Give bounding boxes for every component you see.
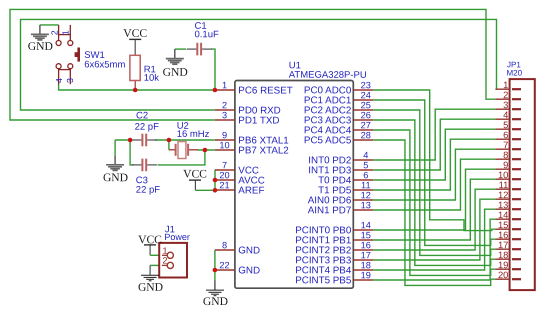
ground GND at SW1 — [28, 25, 53, 53]
svg-text:12: 12 — [361, 190, 371, 200]
pin 10 PB7 XTAL2 — [215, 140, 289, 156]
pin 2 PD0 RXD — [215, 100, 281, 116]
svg-text:11: 11 — [361, 180, 371, 190]
svg-text:3: 3 — [222, 110, 227, 120]
svg-text:GND: GND — [103, 171, 128, 184]
wire U1 pin 8 and pin 22 to GND — [214, 250, 216, 281]
pin 2 JP1 — [495, 89, 521, 100]
svg-text:6x6x5mm: 6x6x5mm — [84, 59, 125, 70]
wire net PB1: U1 to JP1 pin 10 — [373, 179, 495, 240]
svg-text:6: 6 — [363, 170, 368, 180]
wire net PD5: U1 to JP1 pin 6 — [373, 139, 495, 190]
node node RESET/C1 at U1 pin1 — [213, 88, 218, 93]
wire net PD7: U1 to JP1 pin 8 — [373, 159, 495, 210]
ground GND at J1 — [138, 275, 163, 294]
pin 6 JP1 — [495, 129, 521, 140]
svg-text:7: 7 — [222, 160, 227, 170]
wire SW1 pin 2 to GND — [40, 24, 59, 26]
wire net PD1/TX: JP1 pin 2 to U1 pin 3 — [10, 9, 495, 120]
pin 5 INT1 PD3 — [308, 160, 373, 176]
wire net PD6: U1 to JP1 pin 7 — [373, 149, 495, 200]
pin 28 PC5 ADC5 — [304, 130, 373, 146]
capacitor C1 0.1uF — [187, 21, 219, 56]
svg-text:2: 2 — [50, 30, 60, 35]
pin 14 PCINT0 PB0 — [295, 220, 373, 236]
pin 18 JP1 — [495, 249, 521, 260]
label SW1 pin numbers — [50, 30, 76, 83]
svg-text:16 mHz: 16 mHz — [177, 129, 210, 140]
svg-text:VCC: VCC — [123, 27, 147, 40]
wire net ADC4: U1 to JP1 pin 19 — [373, 130, 495, 275]
pin 16 JP1 — [495, 229, 521, 240]
svg-text:PB7 XTAL2: PB7 XTAL2 — [238, 145, 289, 156]
wire VCC to J1 pin 1 — [149, 245, 151, 255]
pin 27 PC4 ADC4 — [304, 120, 373, 136]
switch SW1 6x6x5mm — [56, 25, 79, 84]
pin 24 PC1 ADC1 — [304, 90, 373, 106]
pin 9 JP1 — [495, 159, 521, 170]
svg-text:25: 25 — [361, 100, 371, 110]
wire VCC to U1 pins 7,20,21 — [194, 180, 196, 190]
pin 7 JP1 — [495, 139, 521, 150]
wire C2/C3 gnd link — [130, 140, 134, 165]
wire net PD4: U1 to JP1 pin 5 — [373, 129, 495, 180]
svg-text:2: 2 — [162, 255, 167, 265]
svg-text:13: 13 — [361, 200, 371, 210]
pin 13 JP1 — [495, 199, 521, 210]
svg-text:4: 4 — [54, 78, 64, 83]
pin 15 PCINT1 PB1 — [295, 230, 373, 246]
pin 9 PB6 XTAL1 — [215, 130, 289, 146]
wire C3 right to crystal right — [158, 150, 205, 165]
wire net PB4: U1 to JP1 pin 13 — [373, 209, 495, 270]
svg-text:18: 18 — [361, 260, 371, 270]
svg-text:15: 15 — [361, 230, 371, 240]
svg-text:8: 8 — [222, 240, 227, 250]
wire net PD3: U1 to JP1 pin 4 — [373, 119, 495, 170]
wire net PB3: U1 to JP1 pin 12 — [373, 199, 495, 260]
wire net XTAL2: crystal to U1 pin 10 — [198, 149, 215, 151]
pin 4 JP1 — [495, 109, 521, 120]
svg-text:PC5 ADC5: PC5 ADC5 — [304, 135, 352, 146]
wire C1 left to GND — [175, 48, 186, 50]
connector JP1 M20 — [510, 79, 535, 290]
node node XTAL2/crystal — [203, 148, 208, 153]
svg-text:27: 27 — [361, 120, 371, 130]
pin 19 PCINT5 PB5 — [295, 270, 373, 286]
svg-text:10k: 10k — [144, 73, 160, 84]
pin 21 AREF — [215, 180, 264, 196]
pin 11 JP1 — [495, 179, 521, 190]
wire net PD2: U1 to JP1 pin 3 — [373, 109, 495, 160]
wire net XTAL1: C2, U2 left, U1 pin 9 — [155, 139, 215, 141]
pin 12 JP1 — [495, 189, 521, 200]
svg-text:28: 28 — [361, 130, 371, 140]
svg-text:GND: GND — [238, 245, 260, 256]
pin 10 JP1 — [495, 169, 521, 180]
capacitor C3 22pF — [132, 159, 161, 196]
capacitor C2 22pF — [132, 110, 159, 146]
wire GND to J1 pin 2 — [150, 264, 162, 266]
svg-text:2: 2 — [222, 100, 227, 110]
svg-text:PD1 TXD: PD1 TXD — [238, 115, 279, 126]
pin 14 JP1 — [495, 209, 521, 220]
pin 7 VCC — [215, 160, 259, 176]
svg-text:1: 1 — [60, 30, 70, 35]
svg-text:GND: GND — [238, 265, 260, 276]
wire net PB2: U1 to JP1 pin 11 — [373, 189, 495, 250]
svg-text:22 pF: 22 pF — [135, 122, 160, 133]
svg-text:GND: GND — [28, 40, 53, 53]
svg-text:PCINT5 PB5: PCINT5 PB5 — [295, 275, 352, 286]
resistor R1 10k — [130, 39, 159, 90]
wire net ADC0: U1 to JP1 pin 15 — [373, 90, 495, 231]
pin 5 JP1 — [495, 119, 521, 130]
svg-text:20: 20 — [498, 269, 508, 280]
vcc VCC at J1 — [138, 233, 162, 246]
svg-text:22: 22 — [219, 260, 229, 270]
node node AREF — [213, 188, 218, 193]
wire net ADC5: U1 to JP1 pin 20 — [373, 140, 495, 285]
ground GND at C1 — [163, 49, 188, 79]
svg-text:10: 10 — [219, 140, 229, 150]
wire net PB5: U1 to JP1 pin 14 — [373, 219, 495, 280]
svg-text:C2: C2 — [136, 110, 148, 121]
svg-text:26: 26 — [361, 110, 371, 120]
pin 26 PC3 ADC3 — [304, 110, 373, 126]
svg-text:4: 4 — [363, 150, 368, 160]
svg-text:24: 24 — [361, 90, 371, 100]
svg-text:ATMEGA328P-PU: ATMEGA328P-PU — [289, 70, 367, 81]
pin 23 PC0 ADC0 — [304, 80, 373, 96]
wire net PD0/RX: JP1 pin 1 to U1 pin 2 — [21, 19, 497, 110]
svg-text:21: 21 — [219, 180, 229, 190]
pin 6 T0 PD4 — [318, 170, 373, 186]
wire C1 right down to RESET net — [211, 49, 215, 90]
wire GND drop left of C2 — [114, 140, 116, 156]
svg-text:M20: M20 — [506, 69, 522, 78]
svg-text:5: 5 — [363, 160, 368, 170]
pin 12 AIN0 PD6 — [308, 190, 373, 206]
pin 8 GND — [215, 240, 260, 256]
svg-text:PC6 RESET: PC6 RESET — [238, 85, 292, 96]
svg-text:AREF: AREF — [238, 185, 264, 196]
wire net ADC3: U1 to JP1 pin 18 — [373, 120, 495, 265]
node node RESET/R1 — [133, 88, 138, 93]
crystal U2 16 mHz — [169, 142, 198, 159]
pin 16 PCINT2 PB2 — [295, 240, 373, 256]
svg-text:GND: GND — [203, 295, 228, 308]
wire net ADC2: U1 to JP1 pin 17 — [373, 110, 495, 255]
node node XTAL1 gnd side — [128, 138, 133, 143]
pin 1 PC6 RESET — [215, 80, 293, 96]
node node GND pin22 — [213, 268, 218, 273]
svg-text:VCC: VCC — [183, 167, 207, 180]
pin 22 GND — [215, 260, 260, 276]
wire net ADC1: U1 to JP1 pin 16 — [373, 100, 495, 245]
pin 18 PCINT4 PB4 — [295, 260, 373, 276]
pin 8 JP1 — [495, 149, 521, 160]
svg-text:23: 23 — [361, 80, 371, 90]
svg-text:1: 1 — [162, 246, 167, 256]
pin 3 JP1 — [495, 99, 521, 110]
pin 4 INT0 PD2 — [308, 150, 373, 166]
wire net RESET: SW1 to R1 to C1 to U1 pin 1 — [59, 84, 215, 90]
svg-text:16: 16 — [361, 240, 371, 250]
svg-text:AIN1 PD7: AIN1 PD7 — [308, 205, 352, 216]
vcc VCC at U1 power pins — [183, 167, 207, 180]
pin 17 PCINT3 PB3 — [295, 250, 373, 266]
pin 17 JP1 — [495, 239, 521, 250]
svg-text:1: 1 — [222, 80, 227, 90]
ground GND at C2/C3 — [103, 156, 128, 184]
svg-text:20: 20 — [219, 170, 229, 180]
pin 15 JP1 — [495, 219, 521, 230]
vcc VCC above R1 — [123, 27, 147, 40]
svg-text:GND: GND — [163, 66, 188, 79]
pin 3 PD1 TXD — [215, 110, 280, 126]
IC U1 ATMEGA328P-PU body — [235, 81, 353, 289]
pin 25 PC2 ADC2 — [304, 100, 373, 116]
pin 11 T1 PD5 — [318, 180, 373, 196]
pin 20 JP1 — [495, 269, 521, 280]
svg-text:3: 3 — [65, 78, 75, 83]
connector J1 Power — [159, 243, 187, 278]
node node XTAL1/crystal — [167, 138, 172, 143]
svg-text:14: 14 — [361, 220, 371, 230]
svg-text:GND: GND — [138, 281, 163, 294]
pin 13 AIN1 PD7 — [308, 200, 373, 216]
pin 19 JP1 — [495, 259, 521, 270]
ground GND at U1 pins 8,22 — [203, 281, 228, 309]
svg-text:Power: Power — [164, 232, 190, 242]
svg-text:0.1uF: 0.1uF — [194, 29, 219, 40]
svg-text:9: 9 — [222, 130, 227, 140]
svg-text:22 pF: 22 pF — [136, 185, 161, 196]
pin 20 AVCC — [215, 170, 265, 186]
wire net PB0: U1 to JP1 pin 9 — [373, 169, 495, 230]
svg-text:19: 19 — [361, 270, 371, 280]
wire crystal left drop — [168, 140, 170, 150]
svg-text:17: 17 — [361, 250, 371, 260]
node node AVCC — [213, 178, 218, 183]
pin 1 JP1 — [495, 79, 521, 90]
